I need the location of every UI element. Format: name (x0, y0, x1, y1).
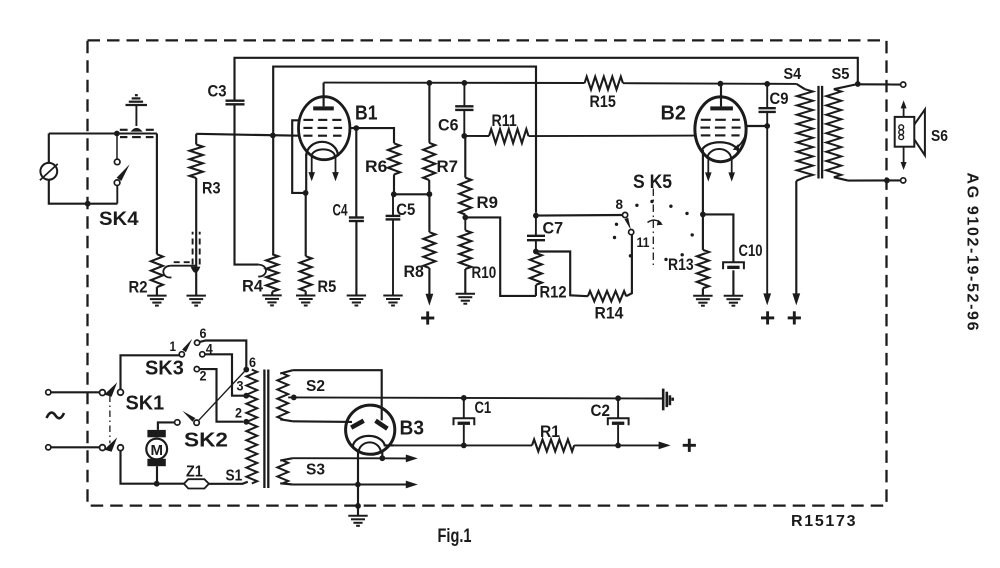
wire: S2 top to B3 anode (293, 370, 382, 420)
wire: R3 bottom to ground (195, 178, 197, 296)
junction: tap 2 (243, 419, 249, 425)
junction: R6/C5 node (391, 191, 397, 197)
SK3 contact 2 (194, 367, 199, 372)
ground under C10 (724, 296, 743, 306)
junction: ground wire on border (355, 503, 361, 509)
transformer core S4/S5 (819, 86, 823, 179)
wire: cathode node to R13 (702, 214, 704, 250)
svg-text:C5: C5 (396, 200, 415, 219)
capacitor C9 (759, 84, 776, 112)
pickup P (gramophone) circle (40, 163, 58, 180)
svg-text:S K5: S K5 (633, 171, 672, 193)
mains terminal top (46, 390, 51, 395)
R4 wiper arm (hook) (258, 265, 266, 277)
B3 anode bar right (376, 421, 388, 429)
capacitor C2 (electrolytic) (608, 418, 629, 425)
B3 cathode lead right (384, 444, 395, 446)
wire: R6 to C5 node (393, 175, 395, 195)
svg-text:R8: R8 (404, 262, 424, 281)
valve B2 envelope (695, 97, 746, 162)
svg-text:C6: C6 (438, 116, 459, 135)
junction: on border crossing (884, 178, 890, 184)
wire: SK1 top fixed up to SK3 (121, 355, 180, 389)
svg-text:R14: R14 (595, 304, 624, 323)
svg-text:S2: S2 (306, 378, 325, 395)
svg-text:S1: S1 (226, 468, 243, 485)
loudspeaker S6 (895, 109, 925, 155)
ground under R3 (187, 296, 206, 306)
wire: input node rail (shielded) (49, 133, 157, 135)
wire: S2 centre tap line to earth (288, 397, 663, 398)
resistor R14 (588, 291, 626, 301)
resistor R11 (489, 129, 529, 143)
transformer primary S1 (246, 370, 257, 484)
junction: C2 top (615, 395, 621, 401)
wire: motor bottom to rail (156, 466, 158, 484)
svg-text:R7: R7 (437, 157, 459, 176)
svg-text:R9: R9 (477, 193, 498, 212)
svg-text:B1: B1 (355, 103, 378, 125)
wire: screen to R6 (350, 128, 394, 143)
junction: tap 3 (243, 393, 249, 399)
plus sign (LT+) (683, 439, 696, 452)
arrow to HT+ (screen line) (763, 293, 771, 305)
svg-text:C10: C10 (739, 241, 763, 260)
wire: B1 g3 bracket to cathode node (292, 120, 305, 193)
wire: feedback line from R4 top to C7 top (second line) (273, 67, 536, 213)
switch SK1 bottom pole (100, 437, 124, 451)
wire: C3 bottom to R4 wiper (235, 105, 259, 265)
svg-text:3: 3 (237, 378, 244, 394)
capacitor C10 (electrolytic) (723, 262, 744, 269)
wire: B3 centre to chassis ground (357, 485, 359, 516)
junction: C9 top on anode line (764, 81, 770, 87)
wire: B3 cathode line to HT+ arrow (395, 444, 532, 446)
resistor R10 (459, 230, 471, 269)
SK3 contact 4 (200, 352, 205, 357)
ground under C4 (347, 296, 366, 306)
ground under R5 (296, 296, 315, 306)
wire: motor to SK2 (158, 422, 175, 430)
svg-text:R13: R13 (668, 255, 694, 274)
resistor R1 (532, 439, 574, 451)
shield dashes around input wire (120, 130, 154, 137)
wire: R2 bottom to ground (156, 287, 158, 296)
wire: S2 bottom to B3 anode 2 (293, 420, 352, 423)
B3 filament arches (353, 436, 385, 446)
contact blob on R3 wire (191, 267, 201, 273)
B1 grid rows (dashes) (303, 120, 342, 136)
wire: node to R5 (305, 193, 307, 256)
resistor R13 (697, 250, 709, 288)
wire: SK3-6 to tap 6 (200, 341, 247, 370)
B2 grid rows (dashes) (700, 120, 740, 136)
svg-text:Z1: Z1 (186, 464, 203, 481)
resistor R9 (459, 178, 471, 215)
junction: B2 cathode node (700, 212, 706, 218)
junction: tap 6 (243, 367, 249, 373)
transformer secondary S5 (826, 84, 858, 181)
junction: S5 top / HT line corner (855, 81, 861, 87)
plus sign (screen line) (761, 311, 774, 324)
speaker terminal top (901, 82, 906, 87)
svg-text:C7: C7 (543, 219, 564, 238)
B3 filament lead left down (357, 451, 359, 485)
svg-text:SK1: SK1 (126, 393, 165, 415)
junction: screen node (764, 123, 770, 129)
wire: pickup bottom to SK4 lower rail (49, 180, 118, 204)
junction: B1 screen node (353, 125, 359, 131)
resistor R8 (423, 232, 435, 268)
ground under R2 (147, 296, 166, 306)
svg-text:M: M (150, 442, 163, 459)
switch SK1 top pole (100, 382, 124, 396)
resistor R7 (423, 143, 435, 180)
wire: SK5 contact 11 down to R14 (626, 235, 632, 297)
svg-text:C9: C9 (770, 89, 789, 108)
junction: cathode node (303, 190, 309, 196)
svg-text:B2: B2 (661, 103, 687, 125)
wire: R4 bottom to ground (271, 292, 273, 296)
node: aerial input junction (114, 131, 120, 137)
transformer core S1 (264, 370, 268, 489)
capacitor C6 (455, 83, 473, 136)
junction: C1 bottom (461, 443, 467, 449)
junction: C6 top on anode line (462, 80, 468, 86)
transformer secondary S3 (277, 458, 292, 484)
svg-text:S6: S6 (931, 128, 948, 145)
svg-text:R2: R2 (129, 278, 148, 297)
svg-text:R5: R5 (318, 277, 337, 296)
junction: R7 top on anode line (427, 80, 433, 86)
wire: SK1 bottom fixed down to mains rail (121, 450, 184, 483)
wire: B1 anode line to B2 anode (324, 83, 797, 84)
junction: C2 bottom (615, 443, 621, 449)
svg-text:R4: R4 (242, 277, 264, 296)
R2 wiper arm (hook) (163, 266, 171, 278)
wire: C6 node to R11 to B2 grid (464, 135, 695, 138)
junction: C6 bottom / grid line B2 (461, 133, 467, 139)
SK2 pivot contact (194, 420, 199, 425)
svg-text:S5: S5 (832, 66, 850, 83)
svg-text:6: 6 (200, 325, 207, 341)
svg-text:SK3: SK3 (145, 358, 184, 380)
transformer primary S4 (796, 84, 813, 181)
capacitor C1 (electrolytic) (454, 418, 475, 425)
resistor R5 (300, 256, 312, 291)
switch SK5 contact 8 (623, 212, 628, 217)
wire: grid node down to R9 (464, 136, 466, 178)
transformer secondary S2 (277, 370, 292, 421)
SK3 pivot contact (179, 352, 184, 357)
junction: B2 anode on line (718, 81, 724, 87)
svg-text:C3: C3 (208, 82, 227, 101)
wire: screen node to B2 (746, 125, 767, 127)
wire: R7 to node (428, 180, 430, 194)
junction: C7 top node (533, 213, 539, 219)
wire: anode line to R7 (428, 83, 430, 143)
B2 beam plate curve (736, 121, 747, 149)
svg-text:B3: B3 (400, 418, 425, 440)
svg-text:1: 1 (170, 338, 177, 354)
chassis earth (sideways) at end of tap line (663, 389, 673, 411)
junction: S2 centre tap (291, 395, 297, 401)
wire: SK2 pivot to S1 tap 6 (selector) (199, 370, 247, 421)
speaker terminal bottom (901, 178, 906, 183)
B2 cathode lead down (702, 150, 704, 214)
wire: C1 top lead (463, 398, 465, 418)
resistor R12 (530, 253, 542, 285)
capacitor C4 feed (355, 128, 357, 217)
svg-text:C4: C4 (333, 201, 348, 220)
svg-text:R11: R11 (492, 111, 517, 130)
capacitor C7 (527, 216, 545, 252)
wire: S5 bottom to speaker terminal (848, 179, 901, 181)
switch SK2 fixed contact (175, 420, 180, 425)
svg-text:R15173: R15173 (791, 513, 856, 530)
wire: node to C5 and ground (392, 194, 394, 215)
wire: S4 bottom to HT+ arrow (795, 181, 797, 294)
wire: C2 top lead (617, 398, 619, 418)
svg-text:C2: C2 (591, 401, 611, 420)
wire: R1 to C2 and arrow (574, 444, 659, 446)
wire: R5 to ground (305, 291, 307, 295)
wire: R2 wiper to R3 foot (171, 265, 196, 267)
svg-text:Fig.1: Fig.1 (438, 526, 472, 547)
wire: pickup top to input node (48, 134, 50, 163)
wire: input rail down to R2 (156, 134, 158, 255)
wire: SK3-4 to tap 3 (205, 354, 244, 395)
capacitor C5 (386, 216, 401, 220)
resistor R6 (388, 143, 400, 174)
AC symbol (47, 413, 65, 419)
ground under B3 (348, 516, 367, 526)
ground under C5 (383, 296, 402, 306)
B1 heater leads with arrows (308, 156, 338, 181)
B1 anode lead (323, 83, 325, 107)
junction: R4 top on grid line (270, 133, 276, 139)
svg-text:11: 11 (637, 234, 650, 250)
svg-text:AG 9102-19-52-96: AG 9102-19-52-96 (964, 173, 981, 331)
SK3 contact 6 (195, 340, 200, 345)
ground under R13 (693, 296, 712, 306)
junction: motor on mains rail (154, 481, 160, 487)
shield dashes at R2/R3 coupling (174, 232, 200, 265)
capacitor C3 (226, 101, 245, 105)
plus sign (S4 line) (788, 311, 801, 324)
wire: mains to SK1 top pole (51, 391, 100, 393)
wire: C2 bottom lead (617, 425, 619, 445)
svg-text:6: 6 (249, 354, 256, 370)
wire: R10 to ground (464, 269, 466, 294)
B2 anode bar (710, 106, 733, 110)
speaker plug arrow up (901, 100, 907, 116)
svg-text:SK4: SK4 (99, 208, 139, 230)
SK1 gang link (dash-dot) (109, 396, 111, 444)
aerial/earth symbol above input (126, 95, 148, 131)
SK5 contact position dots (613, 200, 694, 261)
HT+ plus sign under R8 (421, 311, 434, 324)
svg-text:R10: R10 (472, 263, 497, 282)
wire: C4 to ground (355, 221, 357, 295)
wire: R9 node to R12 bottom (465, 217, 536, 296)
wire: S3 bottom to heater arrow (293, 484, 407, 486)
wire: R4 top column (272, 135, 274, 254)
switch SK2 lever (183, 411, 196, 422)
wire: B1 cathode down to node (305, 155, 307, 193)
B2 heater leads with arrows (705, 159, 735, 182)
junction: B3 filament on S3 top line (379, 455, 385, 461)
resistor R2 (potentiometer) (151, 254, 163, 287)
junction: R9/R10 node (464, 215, 466, 218)
svg-text:R12: R12 (540, 283, 567, 302)
wire: grid line R3/R4 to B1 (196, 134, 299, 136)
SK5 lever (624, 218, 630, 230)
wire: S5 top to speaker terminal (858, 83, 901, 85)
svg-text:S4: S4 (784, 66, 802, 83)
wire: cathode node to C10 (703, 214, 734, 262)
motor M (146, 430, 167, 466)
valve B1 envelope (299, 97, 350, 160)
wire: mains to SK1 bottom pole (51, 446, 100, 448)
junction: lower rail on border (85, 201, 91, 207)
wire: HT bus from C3 top to S5 terminal (top line) (235, 58, 858, 100)
valve B3 envelope (346, 405, 395, 454)
svg-text:R3: R3 (202, 179, 221, 198)
B3 filament lead right down (381, 451, 383, 458)
svg-text:8: 8 (616, 196, 624, 212)
chassis border (dashed) (88, 40, 887, 505)
wire: S3 top to heater arrow (293, 457, 407, 459)
wire: R13 to ground (702, 288, 704, 295)
SK5 rotation arrow (648, 220, 662, 223)
ground under R4 (262, 295, 281, 305)
wire: C7 node to SK5 contact 8 (536, 214, 623, 217)
junction: B3 filament on S3 bottom line (355, 482, 361, 488)
svg-text:R6: R6 (365, 157, 387, 176)
fuse Z1 (184, 479, 209, 488)
resistor R3 (190, 134, 203, 178)
SK5 rotary axis (dash-dot) (652, 189, 654, 268)
svg-text:R15: R15 (590, 92, 616, 111)
svg-text:2: 2 (235, 405, 242, 421)
capacitor C4 (349, 218, 364, 222)
wire: C5 node to R8 node (394, 193, 430, 195)
wire: C7/R12 node to R14 left (536, 252, 588, 297)
switch SK5 contact 11 (629, 230, 634, 235)
junction: C1 top (461, 395, 467, 401)
mains terminal bottom (46, 445, 51, 450)
svg-text:R1: R1 (540, 422, 560, 441)
junction: R7/R8 node (427, 191, 433, 197)
speaker plug arrow down (901, 147, 907, 170)
wire: SK3-2 to tap 2 (199, 369, 243, 422)
switch SK4 (114, 136, 129, 204)
wire: C9 bottom / B2 screen feed down to HT+ (766, 112, 768, 294)
wire: node to R8 (428, 194, 430, 232)
switch SK3 lever (182, 339, 192, 353)
wire: R12 bottom (535, 285, 537, 296)
wire: C10 to ground (732, 270, 734, 295)
B1 anode bar (313, 106, 334, 110)
svg-text:S3: S3 (306, 462, 325, 479)
ground under R10 (456, 294, 475, 304)
junction: C7/R12 node (533, 249, 539, 255)
wire: Z1 to S1 bottom (209, 482, 248, 484)
wire: R8 to HT+ arrow (428, 268, 430, 295)
resistor R15 (585, 77, 623, 90)
B3 anode bar left (351, 421, 364, 428)
svg-text:SK2: SK2 (184, 430, 228, 452)
resistor R4 (potentiometer) (266, 254, 278, 292)
B2 anode lead (720, 84, 722, 107)
B1 cathode arches (306, 142, 338, 156)
svg-text:C1: C1 (475, 398, 492, 417)
wire: C1 bottom lead (463, 425, 465, 445)
B2 cathode arches (702, 142, 739, 151)
